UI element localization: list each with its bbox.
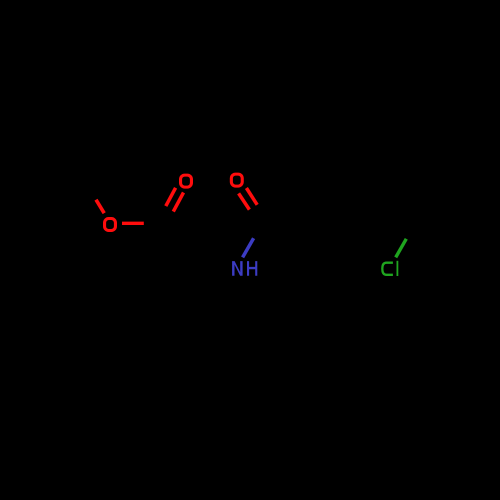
node O1 ester oxygen label [103,217,117,232]
wire O3=C double bond line a (red half) [239,193,250,209]
node Cl chlorine label "l" [397,261,399,276]
node O3 amide carbonyl oxygen label [230,173,244,188]
wire Cl-ring bond (green half) [396,239,407,258]
wire O3=C double bond line b (red half) [246,188,257,205]
node N amide hydrogen label "H" [247,261,257,276]
wire C=O2 double bond line a (red half) [166,188,176,206]
wire O1-C(=O) bond (red half) [122,222,144,225]
wire C-N amide bond (blue half) [243,238,254,257]
node O2 ester carbonyl oxygen label [179,174,193,189]
wire O1-CH2 ethyl bond (red half) [96,200,104,214]
node Cl chlorine label "C" [382,263,393,275]
wire C=O2 double bond line b (red half) [173,193,183,212]
node N amide nitrogen label "N" [232,261,243,276]
